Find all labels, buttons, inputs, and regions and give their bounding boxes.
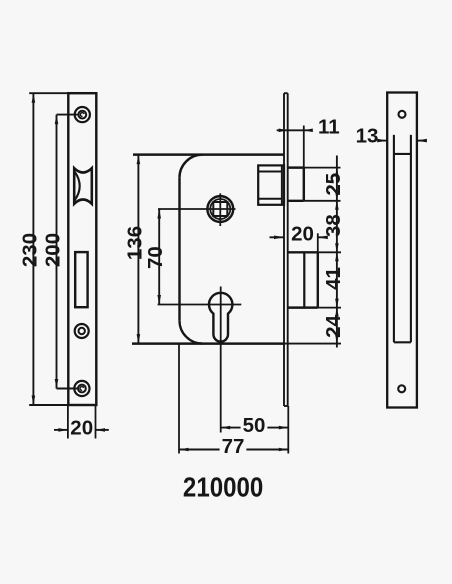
svg-text:24: 24 bbox=[322, 315, 345, 338]
svg-text:70: 70 bbox=[144, 246, 167, 269]
svg-text:41: 41 bbox=[322, 267, 345, 290]
svg-text:20: 20 bbox=[291, 223, 314, 246]
svg-text:25: 25 bbox=[322, 173, 345, 196]
svg-text:230: 230 bbox=[18, 233, 41, 267]
svg-text:38: 38 bbox=[322, 214, 345, 237]
svg-text:13: 13 bbox=[356, 125, 379, 148]
svg-text:77: 77 bbox=[222, 435, 245, 458]
svg-text:11: 11 bbox=[318, 116, 340, 139]
svg-text:20: 20 bbox=[70, 417, 93, 440]
svg-text:200: 200 bbox=[42, 233, 65, 267]
svg-text:50: 50 bbox=[243, 414, 266, 437]
svg-text:136: 136 bbox=[123, 226, 146, 260]
svg-text:210000: 210000 bbox=[183, 471, 263, 503]
